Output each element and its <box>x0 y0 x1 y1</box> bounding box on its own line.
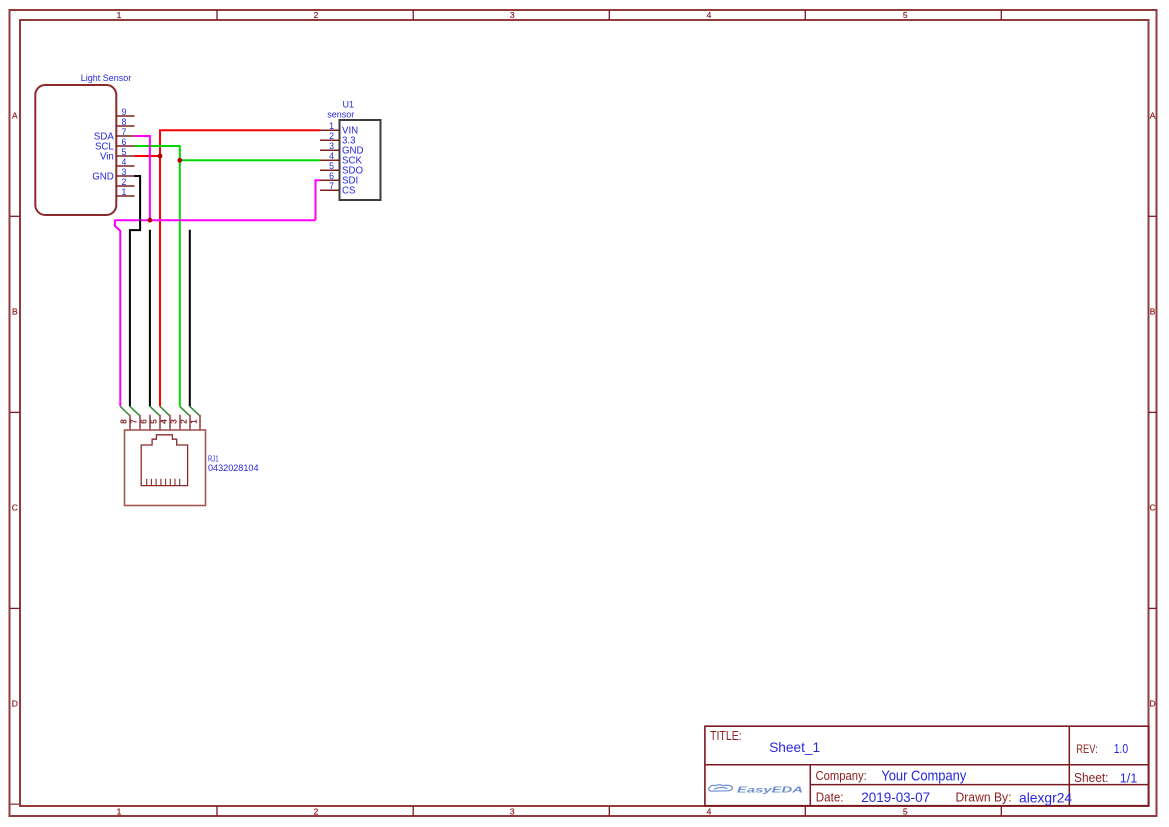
svg-text:0432028104: 0432028104 <box>208 463 259 473</box>
svg-text:Vin: Vin <box>100 151 114 162</box>
connector RJ1 body <box>125 430 206 506</box>
RJ1 pin 1 <box>190 416 200 431</box>
frame corner step bottom-left <box>10 803 20 805</box>
svg-text:REV:: REV: <box>1076 743 1098 756</box>
svg-text:Sheet_1: Sheet_1 <box>769 739 820 755</box>
svg-text:6: 6 <box>122 137 127 147</box>
wire net SDA (magenta) from Light Sensor pin7 down <box>135 136 150 220</box>
svg-text:A: A <box>12 111 18 121</box>
svg-text:4: 4 <box>707 806 712 816</box>
svg-text:7: 7 <box>130 419 139 424</box>
wire black-to-pin1 diagonal (green) <box>190 406 200 415</box>
RJ1 jack contact teeth <box>147 479 180 486</box>
U1 pin 1 VIN <box>320 121 358 137</box>
svg-text:U1: U1 <box>343 99 355 109</box>
svg-text:EasyEDA: EasyEDA <box>737 785 803 794</box>
svg-text:1: 1 <box>122 187 127 197</box>
svg-text:A: A <box>1150 111 1156 121</box>
svg-text:9: 9 <box>122 107 127 117</box>
svg-text:C: C <box>1150 503 1156 513</box>
IC U1 body (sensor) <box>340 120 381 200</box>
svg-text:1.0: 1.0 <box>1114 741 1129 756</box>
svg-text:Your Company: Your Company <box>881 769 967 785</box>
RJ1 pin 6 <box>140 416 150 431</box>
svg-text:Drawn By:: Drawn By: <box>956 791 1012 805</box>
svg-text:1: 1 <box>117 806 122 816</box>
Light Sensor pin 4 <box>116 157 134 167</box>
svg-text:8: 8 <box>120 419 129 424</box>
wire black stub to RJ45 pin1 <box>189 230 191 407</box>
svg-text:6: 6 <box>140 419 149 424</box>
svg-text:D: D <box>12 699 18 709</box>
U1 pin 2 3.3 <box>320 131 355 147</box>
wire net GND (black) from Light Sensor pin3 down with jog <box>130 176 140 406</box>
svg-text:5: 5 <box>329 161 334 171</box>
svg-text:4: 4 <box>122 157 127 167</box>
wire green-to-pin2 diagonal (green) <box>180 406 190 415</box>
Light Sensor pin 7 <box>116 127 134 137</box>
title block row line 1 <box>705 764 1149 766</box>
RJ1 pin 3 <box>170 416 180 431</box>
zone tick marks bottom <box>217 806 1001 816</box>
wire net SCK (green) branch to U1 pin4 <box>180 159 320 161</box>
svg-text:3: 3 <box>170 419 179 424</box>
svg-text:1/1: 1/1 <box>1120 771 1138 786</box>
svg-text:2: 2 <box>314 10 319 20</box>
svg-text:Sheet:: Sheet: <box>1074 770 1109 785</box>
zone tick marks top <box>217 10 1001 20</box>
svg-text:3: 3 <box>122 167 127 177</box>
title block column line logo/company <box>809 765 811 806</box>
zone tick marks left <box>10 216 20 608</box>
svg-text:Date:: Date: <box>816 791 844 805</box>
wire black stub to RJ45 pin5 <box>149 230 151 407</box>
zone numbers bottom 1-5 <box>117 806 908 816</box>
title block column line REV <box>1068 726 1070 806</box>
svg-text:3: 3 <box>329 141 334 151</box>
svg-text:Light Sensor: Light Sensor <box>81 73 132 83</box>
svg-text:1: 1 <box>329 121 334 131</box>
svg-text:C: C <box>12 503 18 513</box>
svg-text:D: D <box>1150 699 1156 709</box>
wire magenta-to-pin8 diagonal (green) <box>120 406 130 415</box>
svg-text:4: 4 <box>329 151 334 161</box>
svg-text:1: 1 <box>190 419 199 424</box>
EasyEDA logo cloud icon <box>709 785 733 791</box>
svg-text:5: 5 <box>150 419 159 424</box>
wire net SDA (magenta) left drop to RJ45 <box>115 220 120 407</box>
svg-text:2019-03-07: 2019-03-07 <box>861 789 930 805</box>
svg-text:TITLE:: TITLE: <box>710 728 742 743</box>
U1 pin 5 SDO <box>320 161 363 177</box>
svg-text:5: 5 <box>903 806 908 816</box>
wire net SCL (green) from Light Sensor down to RJ45 <box>135 146 180 406</box>
svg-text:1: 1 <box>117 10 122 20</box>
junction dot red net at Vin <box>158 154 163 159</box>
svg-text:GND: GND <box>92 171 114 182</box>
title block outline <box>705 726 1149 806</box>
svg-text:alexgr24: alexgr24 <box>1019 790 1072 806</box>
svg-text:3: 3 <box>510 10 515 20</box>
RJ1 pin 2 <box>180 416 190 431</box>
RJ1 pin 4 <box>160 416 170 431</box>
connector "Light Sensor" body <box>35 85 116 215</box>
U1 pin 4 SCK <box>320 151 362 167</box>
title block row line 2 <box>810 784 1149 786</box>
svg-text:4: 4 <box>160 419 169 424</box>
zone numbers top 1-5 <box>117 10 908 20</box>
svg-text:B: B <box>1150 307 1156 317</box>
wire black-to-pin5 diagonal (green) <box>150 406 160 415</box>
svg-text:4: 4 <box>707 10 712 20</box>
U1 pin 6 SDI <box>320 171 358 187</box>
svg-text:5: 5 <box>903 10 908 20</box>
zone letters right A-D <box>1150 111 1156 709</box>
svg-text:2: 2 <box>180 419 189 424</box>
RJ1 jack outline <box>141 435 187 486</box>
svg-text:2: 2 <box>122 177 127 187</box>
svg-text:Company:: Company: <box>816 769 867 783</box>
wire red-to-pin4 diagonal (green) <box>160 406 170 415</box>
svg-text:CS: CS <box>342 186 356 197</box>
wire net SDA (magenta) horizontal bus <box>115 219 316 221</box>
Light Sensor pin 8 <box>116 117 134 127</box>
svg-text:2: 2 <box>329 131 334 141</box>
Light Sensor pin 9 <box>116 107 134 117</box>
svg-text:7: 7 <box>329 181 334 191</box>
junction dot green net at SCK row <box>177 158 182 163</box>
Light Sensor pin 2 <box>116 177 134 187</box>
svg-text:2: 2 <box>314 806 319 816</box>
zone letters left A-D <box>12 111 18 709</box>
svg-text:6: 6 <box>329 171 334 181</box>
svg-text:B: B <box>12 307 18 317</box>
U1 pin 7 CS <box>320 181 356 197</box>
svg-text:5: 5 <box>122 147 127 157</box>
RJ1 pin 7 <box>130 416 140 431</box>
zone tick marks right <box>1149 216 1157 608</box>
svg-text:7: 7 <box>122 127 127 137</box>
wire net VIN (red) U1 pin1 across and down to RJ45 <box>160 130 320 406</box>
RJ1 pin 5 <box>150 416 160 431</box>
U1 pin 3 GND <box>320 141 364 157</box>
wire net SDI (magenta) up to U1 pin6 <box>316 180 321 220</box>
svg-text:sensor: sensor <box>327 109 354 119</box>
Light Sensor pin 3 <box>116 167 134 177</box>
wire black-to-pin7 diagonal (green) <box>130 406 140 415</box>
wire net Vin (red) pin stub to junction <box>135 155 161 157</box>
Light Sensor pin 1 <box>116 187 134 197</box>
svg-text:3: 3 <box>510 806 515 816</box>
Light Sensor pin 6 <box>116 137 134 147</box>
junction dot magenta net <box>148 218 153 223</box>
svg-text:8: 8 <box>122 117 127 127</box>
RJ1 pin 8 <box>120 416 130 431</box>
Light Sensor pin 5 <box>116 147 134 157</box>
